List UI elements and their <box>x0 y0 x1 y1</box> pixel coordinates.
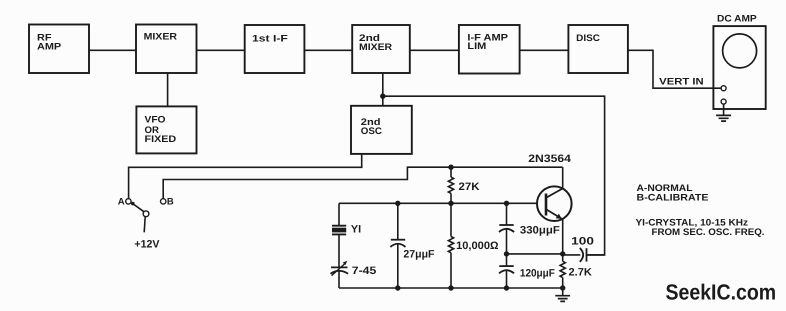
wire 2nd OSC to switch A <box>129 154 362 199</box>
wire 1st I-F to 2nd MIXER <box>304 49 352 51</box>
block 1st I-F <box>245 25 305 73</box>
terminal VERT IN post <box>721 86 726 91</box>
wire 10000 top <box>450 203 452 236</box>
switch arm <box>131 202 144 212</box>
node bottom rail 27uuF <box>395 285 400 290</box>
svg-text:2.7K: 2.7K <box>569 267 593 279</box>
wire feedback from 2nd OSC node to 100 cap <box>383 96 605 255</box>
wire trimmer to bottom rail <box>338 271 340 288</box>
svg-text:AMP: AMP <box>37 42 62 53</box>
wire crystal branch top <box>338 203 340 225</box>
capacitor 27uuF <box>390 240 405 247</box>
wire mid rail <box>507 253 563 255</box>
switch pivot <box>143 211 149 217</box>
svg-text:+12V: +12V <box>134 239 160 251</box>
wire RF AMP to MIXER <box>89 49 136 51</box>
block RF AMP <box>29 25 89 74</box>
wire bottom rail <box>339 287 563 289</box>
svg-text:DC AMP: DC AMP <box>717 13 757 24</box>
node rail junction 27K <box>448 165 453 170</box>
node emitter junction <box>560 251 565 256</box>
svg-text:FROM SEC. OSC. FREQ.: FROM SEC. OSC. FREQ. <box>652 227 765 238</box>
svg-text:B: B <box>167 196 174 207</box>
svg-text:100: 100 <box>571 236 594 248</box>
wire MIXER to 1st I-F <box>197 49 245 51</box>
svg-text:YI: YI <box>351 224 361 236</box>
wire MIXER to VFO <box>167 73 169 106</box>
node bottom rail 10000 <box>448 285 453 290</box>
svg-text:FIXED: FIXED <box>145 134 177 145</box>
wire 2.7K bottom <box>562 278 564 288</box>
resistor 27K <box>448 177 453 193</box>
transistor Q1 2N3564 <box>537 186 572 221</box>
svg-text:1st I-F: 1st I-F <box>252 33 288 44</box>
node junction below 2nd MIXER <box>380 94 385 99</box>
wire 120uuF top <box>506 254 508 266</box>
wire collector <box>562 167 564 189</box>
node base rail 27K <box>448 201 453 206</box>
crystal Y1 <box>332 226 346 235</box>
wire emitter <box>562 219 564 254</box>
node base rail 27uuF <box>395 201 400 206</box>
wire 2nd MIXER to I-F AMP LIM <box>410 49 459 51</box>
scope CRT circle <box>723 34 757 68</box>
node bottom rail 120uuF <box>504 285 509 290</box>
svg-text:SeekIC.com: SeekIC.com <box>666 280 777 305</box>
svg-text:A: A <box>118 196 125 207</box>
wire DISC to VERT IN terminal <box>628 50 721 88</box>
capacitor 330uuF <box>499 225 514 232</box>
svg-text:7-45: 7-45 <box>352 265 377 277</box>
wire 10000 bottom <box>450 253 452 288</box>
capacitor 100 <box>563 248 605 262</box>
trimmer capacitor 7-45 <box>331 261 349 276</box>
wire emitter to 2.7K <box>562 254 564 261</box>
wire 330uuF top <box>506 203 508 225</box>
wire 27K top <box>450 167 452 177</box>
wire 27K bottom <box>450 193 452 203</box>
wire 120uuF to bottom rail <box>506 270 508 288</box>
svg-text:LIM: LIM <box>467 41 486 52</box>
ground main <box>555 288 570 301</box>
block 2nd OSC <box>351 106 412 154</box>
svg-text:10,000Ω: 10,000Ω <box>456 240 498 252</box>
svg-text:MIXER: MIXER <box>359 42 392 53</box>
ground at DC AMP <box>716 104 731 121</box>
svg-text:2N3564: 2N3564 <box>528 153 571 165</box>
terminal ground post <box>721 99 726 104</box>
capacitor 120uuF <box>499 266 514 273</box>
svg-text:120μμF: 120μμF <box>520 268 555 280</box>
node bottom rail 2.7K <box>560 285 565 290</box>
svg-text:OSC: OSC <box>361 126 382 137</box>
wire crystal to trimmer <box>338 234 340 267</box>
svg-text:MIXER: MIXER <box>144 32 178 43</box>
wire 27uuF to bottom rail <box>397 244 399 288</box>
resistor 2.7K <box>560 261 565 277</box>
svg-text:27K: 27K <box>459 181 480 193</box>
node mid left <box>504 251 509 256</box>
block MIXER <box>136 25 197 74</box>
block VFO OR FIXED <box>136 106 196 153</box>
wire pivot to +12V <box>144 217 145 233</box>
svg-text:DISC: DISC <box>576 33 600 44</box>
terminal B <box>161 199 166 204</box>
terminal A <box>126 199 131 204</box>
svg-text:27μμF: 27μμF <box>403 249 434 261</box>
node base rail 330uuF <box>504 201 509 206</box>
block DC AMP scope <box>713 13 765 109</box>
block 2nd MIXER <box>352 25 410 73</box>
block DISC <box>568 25 628 73</box>
wire 2nd MIXER to 2nd OSC <box>382 73 384 106</box>
wire base rail <box>339 202 537 204</box>
wire calibrate B to collector rail <box>163 167 563 199</box>
block I-F AMP LIM <box>459 25 520 74</box>
svg-text:330μμF: 330μμF <box>520 225 560 237</box>
wire 330uuF to mid node <box>506 229 508 254</box>
wire I-F AMP LIM to DISC <box>520 49 569 51</box>
svg-text:B-CALIBRATE: B-CALIBRATE <box>637 192 709 203</box>
svg-text:VERT IN: VERT IN <box>659 77 704 88</box>
wire 27uuF branch top <box>397 203 399 239</box>
resistor 10,000 ohm <box>448 237 453 253</box>
